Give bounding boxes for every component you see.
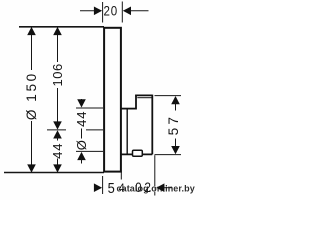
dim Ø150 line lower [31, 121, 33, 172]
top extension line (plate top, to the left) [19, 26, 104, 28]
valve body step left edge [135, 95, 137, 109]
dim 44 line upper [57, 137, 59, 141]
bottom extension line (plate bottom, to the left) [4, 172, 104, 174]
bottom extension line (plate front face) [102, 176, 104, 194]
dim 57 extension line top [155, 95, 182, 97]
valve body top edge [121, 108, 136, 110]
dim 57 arrow down [171, 146, 180, 154]
valve body right edge [151, 95, 153, 155]
escutcheon plate (side view) [104, 28, 121, 172]
dim Ø150 line upper [31, 27, 33, 70]
svg-text:catalog.onliner.by: catalog.onliner.by [117, 183, 195, 193]
dim Ø150 arrow down [27, 164, 36, 172]
valve body bottom tab [133, 150, 143, 156]
svg-text:4: 4 [119, 181, 126, 195]
valve body step top edge [135, 94, 152, 96]
svg-text:20: 20 [104, 3, 119, 18]
svg-text:44: 44 [74, 111, 89, 127]
dim 44 arrow down [53, 164, 62, 172]
dim 57 arrow up [171, 96, 180, 104]
dim 106 line upper [57, 27, 59, 62]
dim Ø44 extension line bottom [76, 150, 103, 152]
dimension 20 arrow right (points left) [123, 7, 131, 16]
valve body bottom edge [121, 153, 152, 155]
dim 57 line lower [175, 139, 177, 149]
svg-text:106: 106 [50, 63, 65, 86]
dimension 20 tail left [80, 10, 96, 12]
dim 57 extension line bottom [155, 154, 182, 156]
dim 106 arrow up [53, 27, 62, 35]
svg-text:Ø 150: Ø 150 [24, 71, 39, 120]
svg-text:0: 0 [135, 181, 142, 196]
centre extension line (handle axis) [47, 129, 66, 131]
bottom dim arrow left (points right) [94, 183, 102, 192]
bottom dim tail right [163, 187, 172, 189]
bottom dim arrow right (points left) [156, 183, 164, 192]
valve body step inner line [137, 97, 151, 99]
dim Ø44 top tail [81, 99, 83, 102]
dim Ø44 extension line top [76, 107, 103, 109]
dim 106 arrow down [53, 121, 62, 129]
dimension 20 tail right [129, 10, 149, 12]
svg-text:5: 5 [108, 180, 115, 196]
dim Ø44 bottom arrow (points up) [77, 152, 86, 160]
bottom extension line (plate back face, short) [120, 171, 122, 180]
valve body internal left edge [126, 109, 128, 155]
dim 44 arrow up [53, 130, 62, 138]
dim 106 line lower [57, 88, 59, 123]
dim 57 line upper [175, 102, 177, 111]
svg-text:Ø: Ø [74, 140, 89, 150]
dimension 20 extension line right [121, 2, 123, 23]
svg-text:57: 57 [166, 114, 181, 136]
dimension 20 extension line left [102, 2, 104, 23]
svg-text:44: 44 [50, 143, 65, 159]
dim Ø150 arrow up [27, 27, 36, 35]
bottom extension line (body end, long) [154, 155, 156, 195]
dim Ø44 mid line [81, 129, 83, 139]
svg-text:2: 2 [144, 181, 151, 196]
dim 44 line lower [57, 159, 59, 173]
dimension 20 arrow left (points right) [94, 7, 102, 16]
dim Ø44 bottom tail [81, 158, 83, 164]
dim Ø44 top arrow (points down) [77, 99, 86, 107]
